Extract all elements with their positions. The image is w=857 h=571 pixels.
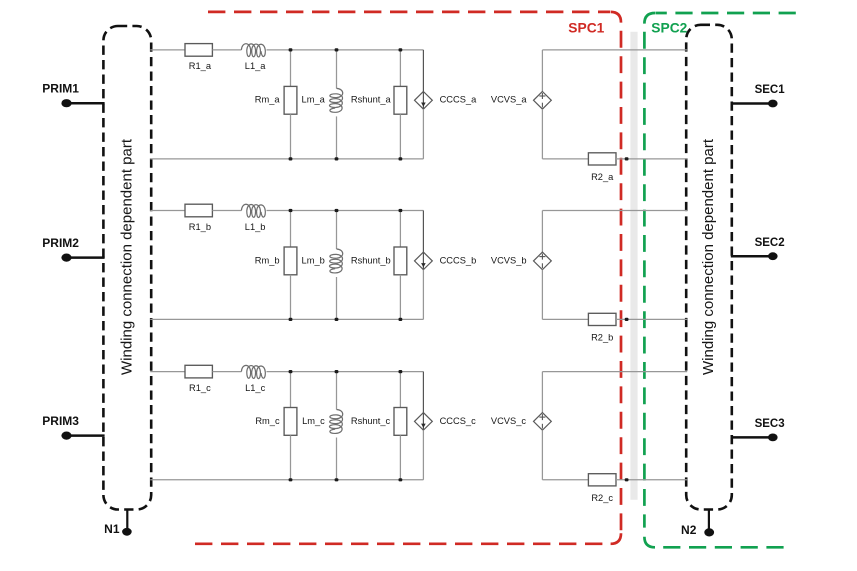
resistor R1_a bbox=[185, 44, 212, 72]
SPC2 boundary box bbox=[644, 13, 795, 547]
wire phase a bottom rail bbox=[150, 158, 423, 160]
wire Rshunt_b top stub bbox=[399, 211, 401, 248]
resistor Rshunt_b bbox=[351, 247, 407, 275]
node N1 bbox=[104, 510, 132, 537]
svg-text:Rshunt_b: Rshunt_b bbox=[351, 255, 391, 265]
svg-text:N1: N1 bbox=[104, 522, 120, 536]
junction phase b top rail x=336.5 bbox=[335, 209, 339, 212]
junction phase c top rail x=290.5 bbox=[289, 370, 293, 373]
wire R1_b to L1_b bbox=[212, 210, 241, 212]
resistor Rshunt_c bbox=[351, 408, 407, 436]
wire phase b top rail bbox=[267, 210, 424, 212]
wire R2_c to secondary box bbox=[616, 479, 687, 481]
junction phase b bottom rail x=290.5 bbox=[289, 318, 293, 321]
wire Lm_c top stub bbox=[336, 372, 338, 410]
svg-text:R1_c: R1_c bbox=[189, 383, 211, 393]
wire Rm_c top stub bbox=[290, 372, 292, 408]
wire Rm_a top stub bbox=[290, 50, 292, 87]
svg-text:R2_c: R2_c bbox=[591, 493, 613, 503]
node N2 bbox=[681, 510, 714, 538]
SPC1 boundary box bbox=[195, 12, 621, 544]
controlled source VCVS_a bbox=[491, 50, 551, 159]
svg-text:PRIM2: PRIM2 bbox=[42, 236, 79, 250]
wire Lm_b top stub bbox=[336, 211, 338, 250]
svg-text:Rm_c: Rm_c bbox=[255, 416, 280, 426]
resistor R1_b bbox=[185, 204, 212, 232]
svg-text:SEC1: SEC1 bbox=[755, 84, 786, 96]
svg-text:Lm_a: Lm_a bbox=[302, 95, 326, 105]
inductor Lm_c bbox=[302, 410, 343, 434]
svg-text:R1_b: R1_b bbox=[189, 222, 211, 232]
wire VCVS_b to R2_b bbox=[542, 318, 588, 320]
junction phase c top rail x=400.4 bbox=[399, 370, 403, 373]
inductor L1_b bbox=[241, 204, 265, 232]
svg-text:R2_a: R2_a bbox=[591, 172, 614, 182]
controlled source CCCS_a bbox=[415, 50, 478, 159]
primary winding-connection box bbox=[103, 26, 151, 510]
svg-text:L1_a: L1_a bbox=[245, 61, 267, 71]
wire R2_b to secondary box bbox=[616, 318, 687, 320]
resistor R2_c bbox=[588, 474, 616, 503]
junction R2_b output node bbox=[625, 318, 629, 321]
svg-text:PRIM1: PRIM1 bbox=[42, 82, 79, 96]
svg-text:Rm_b: Rm_b bbox=[255, 255, 280, 265]
svg-text:CCCS_a: CCCS_a bbox=[440, 95, 478, 105]
junction phase c bottom rail x=290.5 bbox=[289, 478, 293, 481]
wire phase a top rail bbox=[267, 49, 424, 51]
wire Rm_b bottom stub bbox=[290, 275, 292, 320]
svg-text:SEC3: SEC3 bbox=[755, 418, 785, 430]
svg-text:R2_b: R2_b bbox=[591, 333, 613, 343]
svg-text:L1_b: L1_b bbox=[245, 222, 266, 232]
inductor L1_a bbox=[241, 44, 266, 72]
svg-text:PRIM3: PRIM3 bbox=[42, 414, 79, 428]
junction phase c top rail x=336.5 bbox=[335, 370, 339, 373]
terminal PRIM3 bbox=[42, 414, 104, 440]
inductor L1_c bbox=[241, 365, 265, 393]
resistor Rm_c bbox=[255, 408, 297, 436]
junction phase b top rail x=290.5 bbox=[289, 209, 293, 212]
svg-text:Lm_c: Lm_c bbox=[302, 416, 325, 426]
svg-text:CCCS_c: CCCS_c bbox=[440, 416, 477, 426]
wire phase a input bbox=[150, 49, 185, 51]
svg-text:Winding connection dependent p: Winding connection dependent part bbox=[700, 138, 717, 375]
junction R2_c output node bbox=[625, 478, 629, 481]
wire R1_c to L1_c bbox=[212, 371, 241, 373]
resistor Rm_a bbox=[255, 86, 297, 114]
inductor Lm_a bbox=[302, 88, 343, 112]
junction phase a bottom rail x=336.5 bbox=[335, 157, 339, 160]
junction phase c bottom rail x=400.4 bbox=[399, 478, 403, 481]
wire VCVS_c output top rail bbox=[542, 371, 687, 373]
wire Rm_c bottom stub bbox=[290, 435, 292, 480]
inductor Lm_b bbox=[302, 249, 343, 273]
svg-text:CCCS_b: CCCS_b bbox=[440, 255, 477, 265]
terminal PRIM2 bbox=[42, 236, 104, 262]
junction phase c bottom rail x=336.5 bbox=[335, 478, 339, 481]
wire phase c bottom rail bbox=[150, 479, 423, 481]
controlled source VCVS_c bbox=[491, 372, 551, 480]
resistor Rm_b bbox=[255, 247, 297, 275]
wire R1_a to L1_a bbox=[212, 49, 241, 51]
svg-text:SPC1: SPC1 bbox=[568, 21, 604, 36]
junction R2_a output node bbox=[625, 157, 629, 160]
secondary winding-connection box bbox=[686, 25, 732, 510]
svg-text:Rm_a: Rm_a bbox=[255, 95, 281, 105]
wire VCVS_a to R2_a bbox=[542, 158, 588, 160]
svg-text:SEC2: SEC2 bbox=[755, 237, 785, 249]
wire Rshunt_c top stub bbox=[399, 372, 401, 408]
wire phase b input bbox=[150, 210, 185, 212]
junction phase a top rail x=336.5 bbox=[335, 48, 339, 51]
wire phase b bottom rail bbox=[150, 318, 423, 320]
terminal SEC2 bbox=[731, 237, 785, 260]
wire Rshunt_a bottom stub bbox=[399, 114, 401, 159]
terminal PRIM1 bbox=[42, 82, 104, 108]
controlled source CCCS_c bbox=[415, 372, 477, 480]
wire Lm_a top stub bbox=[336, 50, 338, 89]
wire Lm_b bottom stub bbox=[336, 277, 338, 319]
resistor Rshunt_a bbox=[351, 86, 407, 114]
wire VCVS_c to R2_c bbox=[542, 479, 588, 481]
resistor R2_a bbox=[588, 153, 616, 182]
resistor R2_b bbox=[588, 313, 616, 342]
wire Rshunt_a top stub bbox=[399, 50, 401, 87]
svg-text:R1_a: R1_a bbox=[189, 61, 212, 71]
wire Rm_b top stub bbox=[290, 211, 292, 248]
terminal SEC1 bbox=[731, 84, 785, 107]
separator band between SPC1 and SPC2 bbox=[630, 32, 637, 500]
svg-text:Winding connection dependent p: Winding connection dependent part bbox=[119, 138, 136, 375]
svg-text:VCVS_c: VCVS_c bbox=[491, 416, 526, 426]
wire Rshunt_b bottom stub bbox=[399, 275, 401, 320]
svg-text:L1_c: L1_c bbox=[245, 383, 266, 393]
wire Rshunt_c bottom stub bbox=[399, 435, 401, 480]
svg-text:Rshunt_c: Rshunt_c bbox=[351, 416, 391, 426]
wire Lm_c bottom stub bbox=[336, 438, 338, 480]
svg-text:VCVS_a: VCVS_a bbox=[491, 95, 527, 105]
wire VCVS_a output top rail bbox=[542, 49, 687, 51]
controlled source VCVS_b bbox=[491, 211, 551, 320]
terminal SEC3 bbox=[731, 418, 785, 441]
svg-text:SPC2: SPC2 bbox=[651, 21, 687, 36]
resistor R1_c bbox=[185, 365, 212, 393]
junction phase b bottom rail x=336.5 bbox=[335, 318, 339, 321]
svg-text:Rshunt_a: Rshunt_a bbox=[351, 95, 392, 105]
wire R2_a to secondary box bbox=[616, 158, 687, 160]
junction phase a top rail x=400.4 bbox=[399, 48, 403, 51]
svg-text:Lm_b: Lm_b bbox=[302, 255, 325, 265]
junction phase a top rail x=290.5 bbox=[289, 48, 293, 51]
wire phase c input bbox=[150, 371, 185, 373]
wire phase c top rail bbox=[267, 371, 424, 373]
junction phase b bottom rail x=400.4 bbox=[399, 318, 403, 321]
wire VCVS_b output top rail bbox=[542, 210, 687, 212]
wire Lm_a bottom stub bbox=[336, 116, 338, 158]
junction phase a bottom rail x=400.4 bbox=[399, 157, 403, 160]
junction phase b top rail x=400.4 bbox=[399, 209, 403, 212]
junction phase a bottom rail x=290.5 bbox=[289, 157, 293, 160]
svg-text:N2: N2 bbox=[681, 523, 697, 537]
controlled source CCCS_b bbox=[415, 211, 477, 320]
svg-text:VCVS_b: VCVS_b bbox=[491, 255, 527, 265]
wire Rm_a bottom stub bbox=[290, 114, 292, 159]
